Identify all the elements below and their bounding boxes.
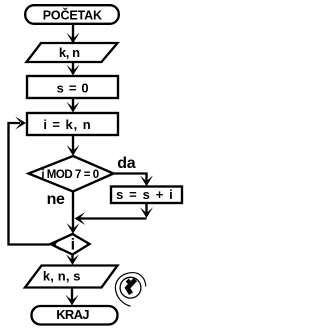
arrow into loop diamond: [67, 223, 80, 234]
arrow into k,n,s: [66, 254, 79, 265]
svg-text:POČETAK: POČETAK: [43, 7, 102, 22]
svg-text:i: i: [71, 236, 75, 253]
process box s=0: [27, 76, 118, 98]
wire: s=0 to i=k,n: [72, 99, 74, 108]
arrow into decision diamond: [67, 145, 80, 156]
wire: k,n to s=0: [72, 63, 74, 71]
terminator POCETAK: [25, 5, 119, 24]
arrow into i=k,n (top): [67, 102, 80, 113]
arrow into junction (down): [140, 207, 153, 218]
arrow into i=k,n (left, from loop back): [15, 117, 26, 130]
svg-text:s = s + i: s = s + i: [116, 187, 174, 202]
svg-text:s = 0: s = 0: [57, 80, 90, 95]
svg-text:k, n: k, n: [59, 45, 80, 60]
svg-text:k, n, s: k, n, s: [43, 269, 81, 284]
wire: POCETAK to input k,n: [72, 25, 74, 39]
svg-text:i = k, n: i = k, n: [43, 117, 91, 132]
svg-text:KRAJ: KRAJ: [56, 307, 89, 322]
process box i=k,n: [27, 113, 118, 135]
loop diamond i: [51, 234, 90, 255]
wire: k,n,s to KRAJ: [71, 288, 73, 301]
output parallelogram k,n,s: [25, 266, 118, 288]
icon: bolt body: [127, 280, 135, 294]
svg-text:i MOD 7 = 0: i MOD 7 = 0: [41, 169, 98, 181]
arrow into s=0: [67, 65, 80, 76]
wire: junction horizontal back to main line: [78, 217, 147, 219]
arrow into k,n: [67, 33, 80, 44]
arrow out of loop diamond (left): [51, 238, 62, 251]
wire: loop diamond to output k,n,s: [71, 255, 73, 261]
decision diamond i MOD 7 = 0: [29, 156, 114, 192]
wire: da branch right and down to s=s+i: [114, 174, 147, 183]
svg-text:ne: ne: [47, 191, 65, 208]
terminator KRAJ: [32, 306, 118, 325]
wire: loop back left: [9, 123, 51, 245]
arrow into main line (left): [75, 212, 86, 225]
process box s=s+i: [111, 187, 182, 204]
arrowheads: [15, 33, 153, 306]
icon: circle: [120, 277, 141, 298]
arrow into KRAJ: [66, 295, 79, 306]
wire: decision ne branch down to loop diamond: [72, 192, 74, 230]
wire: i=k,n to decision: [72, 136, 74, 151]
arrow into s=s+i: [140, 175, 153, 186]
wire: s=s+i down to junction: [145, 203, 147, 214]
svg-text:da: da: [117, 155, 135, 172]
input parallelogram k,n: [27, 43, 118, 62]
icon: swoosh arc: [115, 273, 145, 307]
icon: bolt head: [127, 280, 130, 283]
